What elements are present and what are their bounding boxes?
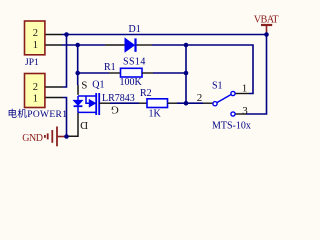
power VBAT: [261, 25, 272, 35]
svg-text:GND: GND: [22, 133, 42, 144]
svg-text:R1: R1: [104, 62, 116, 73]
svg-text:1K: 1K: [149, 109, 162, 120]
svg-text:D1: D1: [129, 24, 141, 35]
junction dot R1 right: [184, 71, 189, 76]
svg-text:2: 2: [197, 92, 203, 104]
wire: R1 left to source branch: [78, 72, 109, 74]
wire net A right drop to switch pin3: [246, 35, 267, 115]
junction dot net B / source branch: [75, 43, 80, 48]
wire: branch from net B down to Q1 source: [77, 45, 79, 85]
svg-text:VBAT: VBAT: [254, 14, 279, 25]
connector JP1: [25, 21, 63, 55]
svg-text:JP1: JP1: [25, 58, 39, 68]
resistor R2: [139, 99, 177, 108]
svg-text:3: 3: [242, 105, 248, 117]
wire net B: JP1 pin1 to D1 anode: [62, 44, 105, 46]
svg-text:2: 2: [33, 28, 38, 39]
wire: gate to R2 left: [110, 102, 139, 104]
svg-text:1: 1: [33, 40, 38, 51]
junction dot ground: [64, 134, 69, 139]
junction dot R2 right: [184, 101, 189, 106]
connector motor (POWER1): [25, 74, 64, 108]
wire net A top: JP1 pin2 to VBAT: [62, 34, 267, 36]
svg-text:Q1: Q1: [92, 80, 104, 91]
svg-text:电机POWER1: 电机POWER1: [8, 108, 68, 120]
diode D1: [105, 38, 152, 51]
wire: vertical x=186 joining net B, R1 right, R2 right: [185, 45, 187, 103]
junction dot net B / x186: [184, 43, 189, 48]
svg-text:SS14: SS14: [123, 57, 146, 68]
svg-text:S: S: [81, 79, 87, 91]
wire net B: D1 cathode to corner, down to switch pin1: [152, 45, 253, 94]
svg-text:LR7843: LR7843: [102, 93, 135, 104]
wire: motor connector pin1 down to ground rail: [63, 98, 67, 137]
svg-text:S1: S1: [212, 81, 223, 92]
ground symbol: [45, 127, 67, 147]
svg-text:2: 2: [33, 82, 38, 93]
svg-text:D: D: [80, 119, 88, 131]
junction dot net A / JP1 branch: [64, 32, 69, 37]
svg-text:R2: R2: [140, 88, 152, 99]
svg-text:G: G: [111, 104, 119, 116]
svg-text:1: 1: [242, 83, 248, 95]
wire: Q1 drain down to ground junction: [68, 112, 79, 136]
transistor Q1 (N-MOSFET with body diode): [74, 85, 110, 115]
svg-text:100K: 100K: [120, 77, 143, 88]
resistor R1: [109, 68, 153, 77]
junction dot VBAT: [264, 32, 269, 37]
svg-text:MTS-10x: MTS-10x: [212, 121, 251, 132]
wire: R2 right to switch pin2: [177, 102, 203, 104]
wire net A branch down to motor connector pin2: [63, 35, 67, 88]
svg-text:1: 1: [33, 93, 38, 104]
wire: R1 right to vertical: [153, 72, 186, 74]
junction dot R1 left tap: [75, 71, 80, 76]
switch S1: [197, 83, 249, 118]
